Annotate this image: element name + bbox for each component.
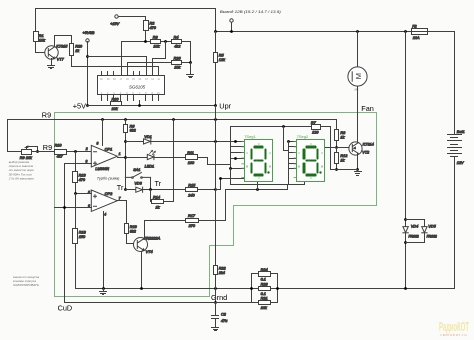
- wire VT2 emitter down: [357, 154, 359, 170]
- resistor R23: [259, 282, 271, 296]
- svg-text:FR302: FR302: [427, 235, 437, 239]
- node emitter ground: [356, 168, 359, 171]
- ground at R26: [187, 75, 194, 78]
- node long rail ground: [404, 287, 407, 290]
- wire pin3 column down to CuD: [64, 164, 66, 303]
- svg-text:240: 240: [187, 194, 195, 198]
- svg-text:120: 120: [312, 130, 319, 134]
- node VD1 line at 7seg bus: [234, 140, 237, 143]
- resistor R7: [311, 121, 321, 135]
- node VT4 emitter ground: [140, 287, 143, 290]
- display 7Seg2: [297, 134, 325, 182]
- node VD1 line at main vertical: [214, 140, 217, 143]
- svg-text:R1: R1: [39, 34, 44, 38]
- svg-text:2: 2: [85, 147, 88, 151]
- wire R28 to VT7 base: [36, 42, 46, 53]
- resistor R21: [259, 296, 271, 310]
- wire R6 bottom to OP1 out column: [125, 133, 127, 190]
- pin numbers SG6105 top row: [100, 78, 161, 81]
- svg-text:+5V: +5V: [73, 101, 86, 110]
- svg-text:LED1: LED1: [145, 165, 155, 169]
- wire R14 pullup column: [173, 120, 175, 202]
- green net stub at OP2 pin6: [54, 207, 56, 209]
- wire bus2 bottom join: [288, 175, 290, 185]
- transistor VT7 KT315: [45, 44, 68, 61]
- resistor R4: [172, 35, 182, 48]
- wire OP1 pin8: [102, 120, 104, 146]
- wire 7seg1 bottom pin: [257, 182, 259, 190]
- node KT814 base: [335, 146, 338, 149]
- svg-text:4k7: 4k7: [57, 155, 64, 159]
- wire CuD line: [65, 302, 278, 304]
- ground at VT7 emitter: [48, 66, 55, 69]
- wire R14 to pullup column: [164, 201, 174, 203]
- wire pot to R10: [32, 151, 55, 153]
- wire R7 drop column: [330, 127, 332, 170]
- resistor R6: [124, 124, 137, 132]
- resistor R10: [55, 143, 67, 158]
- resistor R24: [252, 268, 278, 282]
- node line B main vertical: [214, 118, 217, 121]
- svg-text:270: 270: [188, 224, 196, 228]
- wire R26 row: [128, 62, 191, 64]
- pin stubs top of SG6105: [102, 72, 140, 76]
- svg-text:Grnd: Grnd: [211, 293, 227, 302]
- wire +5VSB down to +5V node: [87, 42, 89, 106]
- wire chip pin7 to +5V line: [139, 101, 141, 106]
- wire SA1 right post down: [150, 178, 152, 190]
- wire R11 to display bus jog: [198, 158, 231, 165]
- LED LED1: [145, 151, 156, 169]
- resistor R3: [151, 35, 161, 48]
- node pin6 CuD column: [63, 206, 66, 209]
- node 7seg1 bottom pin: [256, 188, 259, 191]
- display 7Seg1: [244, 134, 272, 182]
- svg-text:0.1: 0.1: [261, 277, 266, 281]
- svg-text:R9: R9: [42, 111, 51, 120]
- wire top rail from VT7 to +12V corner: [36, 9, 216, 32]
- svg-text:R4: R4: [174, 35, 179, 39]
- svg-text:VT7: VT7: [57, 58, 65, 62]
- svg-text:R18: R18: [79, 231, 87, 235]
- svg-text:VD4: VD4: [411, 225, 418, 229]
- wire R12 bottom: [336, 164, 338, 170]
- wire chip pin4 up: [121, 42, 123, 76]
- wire 7seg2 stub a up: [288, 142, 290, 151]
- wire OP2 pin5: [76, 193, 92, 195]
- svg-text:150: 150: [79, 235, 86, 239]
- node pin4 ground: [102, 287, 105, 290]
- svg-text:47u: 47u: [221, 319, 228, 323]
- switch SA1: [125, 168, 150, 179]
- wire R8 to base node: [336, 141, 338, 148]
- wire fan to KT814 collector: [357, 87, 359, 143]
- node line B op1 pin8: [101, 118, 104, 121]
- wire fan branch down: [357, 32, 359, 67]
- node line B R6: [124, 118, 127, 121]
- wire R2 to divider line: [145, 31, 147, 42]
- svg-text:Турбо (зима): Турбо (зима): [97, 176, 120, 180]
- svg-text:PN2222A: PN2222A: [144, 236, 161, 240]
- svg-text:R10: R10: [55, 143, 63, 147]
- wire battery negative down: [406, 157, 455, 289]
- svg-text:R12: R12: [340, 154, 348, 158]
- wire R10 to OP1 pin2: [67, 151, 92, 153]
- wire R19 column: [127, 201, 135, 244]
- wire R7 line: [231, 127, 331, 169]
- resistor R11: [186, 151, 198, 165]
- svg-text:160: 160: [188, 161, 195, 165]
- watermark radiokot: [439, 319, 469, 337]
- svg-text:SA1: SA1: [133, 168, 140, 172]
- resistor R22: [214, 266, 227, 275]
- 7Seg1 pin marks green: [247, 144, 271, 179]
- node 7seg2 feed: [282, 125, 285, 128]
- svg-text:8: 8: [97, 142, 99, 146]
- 7Seg2 digit 8: [303, 146, 322, 177]
- potentiometer R9: [20, 146, 38, 160]
- svg-text:CuD: CuD: [58, 304, 73, 313]
- label isolate note: [12, 275, 40, 287]
- node main vertical ground: [214, 287, 217, 290]
- capacitor C2: [212, 303, 229, 328]
- svg-text:R9: R9: [43, 143, 52, 152]
- wire R13 column: [75, 152, 77, 194]
- node 7seg2 stub a: [287, 140, 290, 143]
- svg-text:+15V: +15V: [110, 22, 119, 26]
- svg-text:10A: 10A: [413, 36, 420, 40]
- node at 178.8: [219, 177, 222, 180]
- resistor R17: [186, 214, 199, 228]
- node Upr: [214, 104, 217, 107]
- wire OP1 output: [118, 157, 126, 159]
- wire +12V rail top: [216, 32, 455, 135]
- diode VD4: [403, 225, 419, 239]
- node R2 R3: [144, 40, 147, 43]
- svg-text:4k2: 4k2: [174, 44, 181, 48]
- wire VD5 branch: [406, 220, 425, 243]
- svg-text:+5VSB: +5VSB: [83, 31, 95, 35]
- node shunt left: [250, 287, 253, 290]
- wire divider line R3 R4: [122, 42, 191, 63]
- svg-text:OP2: OP2: [105, 192, 113, 196]
- node Tr line main vertical: [214, 188, 217, 191]
- node VD4 top: [404, 218, 407, 221]
- battery Bat1: [448, 130, 465, 165]
- svg-text:KT814: KT814: [363, 142, 374, 146]
- svg-text:7Seg2: 7Seg2: [297, 134, 309, 139]
- node OP1 out: [124, 156, 127, 159]
- ground at OP2 pin4: [100, 289, 107, 295]
- ground at C2: [212, 328, 219, 331]
- svg-text:KT315: KT315: [56, 44, 68, 48]
- wire 7seg1 pin stubs: [231, 147, 244, 169]
- svg-text:Tr: Tr: [155, 179, 162, 188]
- wire R15 to 7seg1 bottom pin row: [216, 179, 244, 190]
- resistor R12: [335, 148, 349, 164]
- svg-text:3k2: 3k2: [130, 129, 137, 133]
- pin numbers SG6105 bottom row: [101, 92, 161, 95]
- wire R3R4 node to chip pin 9: [153, 42, 166, 76]
- wire Tr to R14: [151, 190, 152, 202]
- node line B R14 column: [172, 118, 175, 121]
- wire VT7 collector to top rail and R29: [55, 36, 72, 47]
- svg-text:Upr: Upr: [219, 102, 231, 111]
- svg-text:470: 470: [150, 26, 157, 30]
- wire VT4 emitter down: [141, 252, 143, 289]
- svg-text:R17: R17: [188, 214, 196, 218]
- wire VT4 collector to R17: [145, 221, 186, 239]
- pin stubs bottom of SG6105: [102, 96, 159, 101]
- svg-text:12V: 12V: [457, 161, 464, 165]
- wire +5VSB to chip pin 8: [88, 57, 147, 76]
- node shunt right: [276, 287, 279, 290]
- wire 7seg2 pin to base node and base: [325, 147, 350, 149]
- wire OP2 pin4 down: [103, 212, 105, 289]
- resistor R13: [73, 172, 87, 183]
- resistor R14: [152, 195, 164, 209]
- wire R17 to display bottom loop: [199, 185, 288, 221]
- wire chip pin5 up: [127, 63, 129, 76]
- resistor R29: [70, 44, 84, 56]
- svg-text:R30: R30: [112, 98, 120, 102]
- node +5VSB branch: [86, 55, 89, 58]
- 7Seg1 pin ticks: [242, 141, 244, 177]
- fuse F2: [412, 25, 428, 40]
- svg-text:R11: R11: [187, 151, 194, 155]
- svg-text:SG6105: SG6105: [129, 85, 146, 90]
- fan motor M1: [348, 67, 367, 92]
- svg-text:VD5: VD5: [428, 225, 436, 229]
- node 12V terminal: [230, 30, 233, 33]
- svg-text:2k4: 2k4: [218, 271, 225, 275]
- terminal +15V: [110, 15, 119, 26]
- label note block threshold: [8, 160, 34, 181]
- node VD4 bottom: [404, 241, 407, 244]
- svg-text:7Seg1: 7Seg1: [244, 134, 256, 139]
- node Tr line left: [124, 188, 127, 191]
- wire VD1 line: [126, 141, 244, 143]
- svg-text:VT2: VT2: [362, 150, 370, 154]
- wire line B left corner to pot R9: [8, 120, 22, 152]
- diode VD1: [144, 135, 152, 144]
- wire LED line: [126, 157, 186, 159]
- wire OP2 output: [118, 200, 127, 202]
- svg-text:VD3: VD3: [134, 181, 142, 185]
- svg-text:R29: R29: [75, 45, 83, 49]
- svg-text:Tr: Tr: [117, 183, 124, 192]
- svg-text:8k2: 8k2: [130, 230, 137, 234]
- svg-text:ЗАИЗОЛИРОВАТЬ: ЗАИЗОЛИРОВАТЬ: [13, 283, 39, 287]
- wire line B +5V distribution: [8, 119, 337, 121]
- resistor R28: [34, 32, 47, 43]
- wire R6 top: [125, 120, 127, 125]
- svg-text:R19: R19: [130, 225, 138, 229]
- node R10 R13: [74, 150, 77, 153]
- svg-text:470: 470: [79, 178, 86, 182]
- terminal +5VSB: [83, 31, 95, 42]
- svg-text:FR302: FR302: [409, 235, 419, 239]
- wire R5 column: [215, 32, 217, 106]
- svg-text:R21: R21: [261, 296, 268, 300]
- svg-text:РадиоКОТ: РадиоКОТ: [439, 319, 469, 334]
- wire R22 to ground line and CuD: [215, 275, 217, 303]
- svg-text:7: 7: [119, 196, 121, 200]
- diode VD3: [134, 181, 142, 192]
- node +5V: [86, 104, 89, 107]
- node R5 top: [214, 30, 217, 33]
- svg-text:2 5с 6А максимум: 2 5с 6А максимум: [8, 177, 34, 181]
- svg-text:R22: R22: [219, 266, 227, 270]
- green net loop (highlighted wire): [55, 113, 377, 297]
- wire OP2 pin6 from green net: [55, 207, 92, 209]
- resistor R8: [335, 130, 347, 141]
- ground at VT2: [355, 172, 362, 176]
- svg-text:Bat1: Bat1: [457, 130, 465, 134]
- wire under-box loop to 7seg2 lower pins: [231, 169, 305, 185]
- node C2 CuD: [214, 301, 217, 304]
- transistor VT2 KT814: [349, 142, 374, 155]
- diode VD5: [422, 225, 437, 239]
- resistor R30: [111, 98, 122, 111]
- node R13 OP2 pin5: [74, 192, 77, 195]
- node chip pin7 at +5V line: [138, 104, 141, 107]
- node R4 R26: [189, 61, 192, 64]
- 7Seg1 digit 8: [251, 146, 270, 177]
- node Tr line SA1: [149, 188, 152, 191]
- wire long right vertical: [405, 32, 407, 289]
- resistor R5: [214, 53, 227, 63]
- node 7seg1 stub b: [234, 157, 237, 160]
- svg-text:VT4: VT4: [146, 250, 153, 254]
- svg-text:1: 1: [119, 152, 121, 156]
- wire 7seg2 feed column: [284, 127, 289, 175]
- resistor R15: [186, 184, 198, 198]
- node R12 bottom: [335, 168, 338, 171]
- wire +5V line A left: [88, 105, 216, 107]
- svg-text:Fan: Fan: [361, 104, 374, 113]
- resistor R18: [73, 229, 87, 244]
- svg-text:R14: R14: [153, 195, 160, 199]
- resistor R26: [172, 57, 182, 70]
- wire VT7 emitter down: [51, 59, 53, 66]
- svg-text:R13: R13: [79, 173, 87, 177]
- wire 7seg2 pin stubs: [289, 142, 297, 169]
- svg-text:M: M: [354, 73, 363, 79]
- svg-text:VD1: VD1: [144, 135, 151, 139]
- wire R29 bottom to chip pin 10: [72, 56, 159, 76]
- resistor R2: [144, 21, 157, 31]
- wire to ground below R26: [190, 63, 192, 75]
- svg-text:R15: R15: [188, 184, 196, 188]
- op-amp OP2: [88, 190, 121, 217]
- wire emitter ground line: [331, 170, 358, 172]
- shunt group left vertical: [251, 274, 253, 303]
- shunt group right vertical: [277, 274, 279, 303]
- svg-text:radiokot.ru: radiokot.ru: [441, 333, 468, 337]
- svg-text:4: 4: [104, 213, 106, 217]
- svg-text:LM393N: LM393N: [95, 167, 109, 171]
- transistor VT4 PN2222A: [134, 236, 161, 254]
- 7Seg2 pin ticks: [294, 141, 296, 177]
- node long rail top: [404, 30, 407, 33]
- node R3 R4: [164, 40, 167, 43]
- svg-text:R23: R23: [261, 282, 269, 286]
- wire +15V to R2: [119, 17, 146, 21]
- terminal 12V sense: [230, 19, 233, 32]
- node fan branch: [356, 30, 359, 33]
- node VD1 line left: [124, 140, 127, 143]
- wire OP1 pin3: [65, 163, 92, 165]
- svg-text:R26: R26: [174, 57, 182, 61]
- wire internal ground line: [76, 288, 455, 290]
- wire main vertical middle section: [215, 106, 217, 266]
- wire Tr line: [126, 189, 216, 191]
- svg-text:M1: M1: [355, 88, 359, 92]
- svg-text:R24: R24: [261, 268, 268, 272]
- op-amp OP1: [85, 142, 121, 171]
- wire line B right corner to R8: [336, 120, 338, 130]
- svg-text:OP1: OP1: [105, 147, 113, 151]
- node pot wiper: [36, 150, 39, 153]
- 7Seg2 pin marks green: [299, 144, 323, 179]
- wire R18 column: [75, 194, 77, 289]
- svg-text:Вывод 12В (15.2 / 14.7 / 13.9): Вывод 12В (15.2 / 14.7 / 13.9): [220, 10, 282, 14]
- node 7seg1 stub c: [229, 167, 232, 170]
- resistor R19: [125, 224, 138, 234]
- IC U1 SG6105: [98, 76, 165, 95]
